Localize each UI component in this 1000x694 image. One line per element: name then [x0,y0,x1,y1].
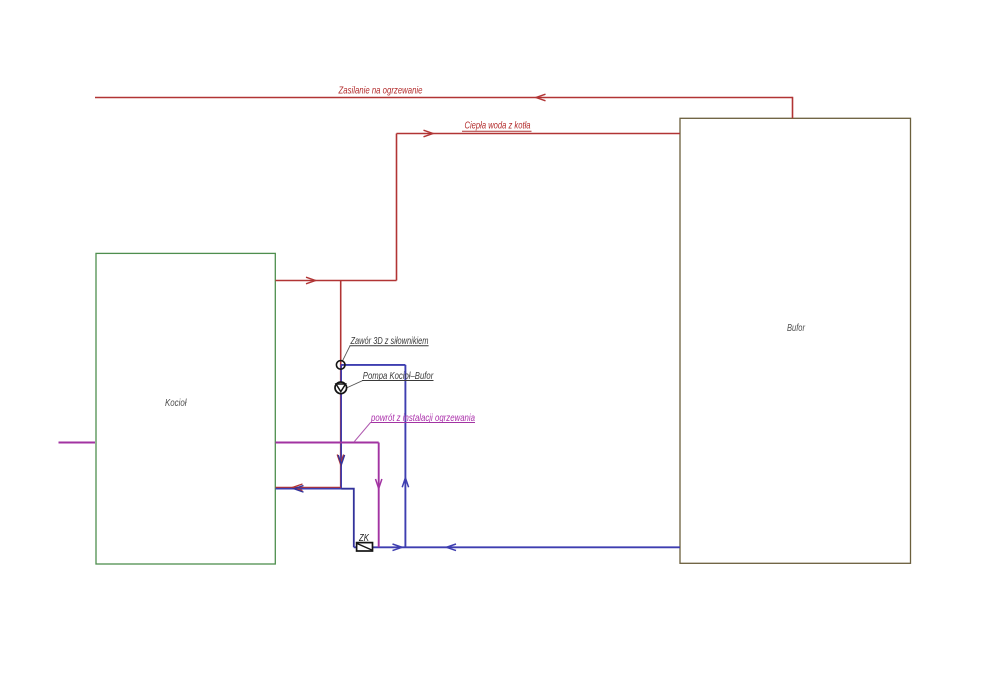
label powrot z instalacji ogrzewania [370,412,475,424]
buffer tank box Bufor [680,118,911,563]
arrow left red on boiler return [293,484,303,491]
wire: blue component of pump drop line [340,365,342,489]
pump Kociol-Bufor (circle with triangle) [335,382,347,394]
svg-text:Zasilanie na ogrzewanie: Zasilanie na ogrzewanie [338,85,423,97]
arrow left on bottom line [447,544,457,551]
wire: blue right riser down to bottom line [404,365,406,547]
leader line for valve label [343,346,350,361]
label Kociol [165,397,187,409]
svg-text:Kocioł: Kocioł [165,397,187,409]
leader line for powrot label [354,423,371,443]
boiler box Kociol [96,253,275,564]
svg-text:powrót z instalacji ogrzewania: powrót z instalacji ogrzewania [370,412,475,424]
wire: red drop from top line into Bufor top [792,97,794,119]
label ZK [358,533,370,544]
underline of valve label [350,345,429,347]
svg-text:ZK: ZK [358,533,370,544]
wire: blue from valve to right riser [341,364,406,366]
wire: red branch down to 3-way valve [340,281,342,366]
wire: red riser from boiler outlet up to hot water line [396,134,398,281]
3-way valve with actuator (circle) [336,361,345,370]
underline of powrot label [371,422,476,424]
arrow right on bottom line [393,544,403,551]
wire: red supply to heating, top horizontal [95,97,793,99]
wire: red boiler outlet horizontal [276,280,397,282]
wire: red return into boiler [276,486,342,488]
underline of pump label [362,380,434,382]
arrow up on blue right riser [402,478,408,488]
arrow on hot water line pointing right [424,130,434,137]
arrow down magenta [376,479,382,489]
check valve ZK (rectangle with diagonal) [357,543,373,551]
label Ciepla woda z kotla [465,120,531,132]
svg-text:Zawór 3D z siłownikiem: Zawór 3D z siłownikiem [350,335,429,347]
label Bufor [787,322,805,334]
leader line for pump label [347,381,363,388]
wire: red component of pump drop line [340,365,342,487]
svg-text:Pompa Kocioł–Bufor: Pompa Kocioł–Bufor [363,370,434,382]
wire: magenta return stub left of boiler [59,442,96,444]
wire: blue return into boiler [276,488,342,490]
svg-text:Bufor: Bufor [787,322,805,334]
svg-text:Ciepła woda z kotła: Ciepła woda z kotła [465,120,531,132]
wire: magenta return from heating installation [276,442,379,444]
arrow down red on pump line [337,455,343,465]
wire: navy branch from return junction down to ZK [341,489,353,548]
arrow on supply line pointing left [536,94,546,101]
label Pompa Kociol-Bufor [363,370,434,382]
arrow left blue on boiler return [294,486,304,493]
arrow on boiler outlet pointing right [306,277,316,284]
label Zasilanie na ogrzewanie [338,85,423,97]
arrow down blue on pump line [338,455,344,465]
underline of Ciepla woda label [462,130,532,132]
wire: red hot water from boiler to Bufor [397,133,681,135]
wire: magenta drop to bottom line [378,443,380,548]
wire: blue bottom line from ZK to Bufor [354,546,680,548]
label Zawor 3D z silownikiem [350,335,429,347]
